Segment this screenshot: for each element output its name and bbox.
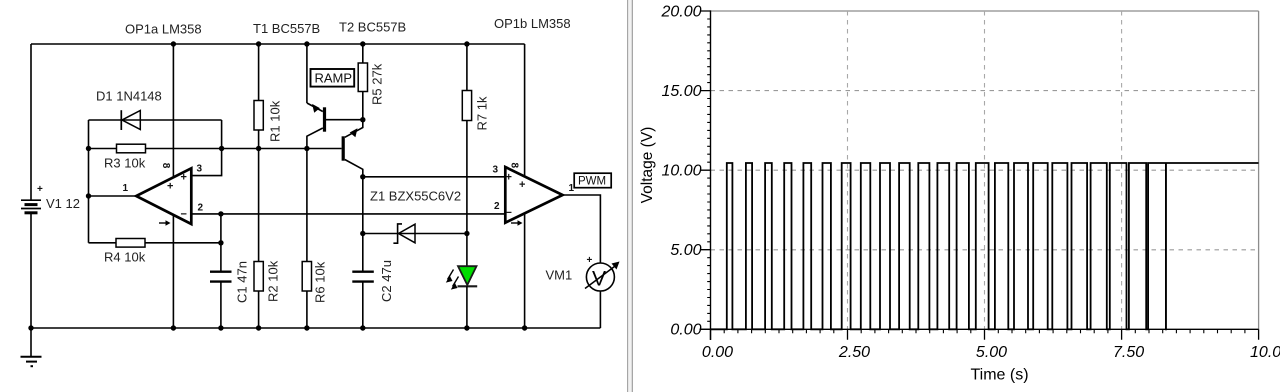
wire OP1a output xyxy=(89,195,138,197)
svg-text:R7 1k: R7 1k xyxy=(475,96,490,130)
wire top rail xyxy=(31,43,525,45)
wire D1 loop verticals xyxy=(89,120,222,149)
svg-text:+: + xyxy=(506,172,512,184)
wire C1 to rail xyxy=(220,282,222,328)
resistor R7 1k xyxy=(462,41,489,233)
svg-text:VM1: VM1 xyxy=(546,268,573,283)
svg-text:R6 10k: R6 10k xyxy=(313,261,328,303)
wire node row y148 xyxy=(89,148,307,150)
wire zener column xyxy=(362,177,364,234)
wire OP1b pin3 row xyxy=(363,176,506,178)
node row148 left xyxy=(86,146,91,151)
svg-text:OP1b LM358: OP1b LM358 xyxy=(494,16,571,31)
wire OP1b pin8 xyxy=(524,44,526,177)
svg-text:R1 10k: R1 10k xyxy=(268,100,283,142)
y axis xyxy=(710,10,712,340)
svg-text:R3 10k: R3 10k xyxy=(104,156,146,171)
y minor ticks xyxy=(707,19,710,321)
wire OP1a pin8 power xyxy=(172,44,174,178)
node R4 right xyxy=(218,240,223,245)
resistor R2 10k xyxy=(254,149,281,329)
svg-text:15.00: 15.00 xyxy=(661,83,701,100)
diode D1 1N4148 xyxy=(89,89,222,131)
wire OP1b output xyxy=(563,195,601,263)
node PWM label xyxy=(574,173,611,188)
svg-text:T1 BC557B: T1 BC557B xyxy=(253,21,320,36)
wire OP1a pin2 long to OP1b pin2 xyxy=(191,213,505,215)
resistor R6 10k xyxy=(302,149,327,329)
node row148 at x221 xyxy=(219,146,224,151)
capacitor C2 47u xyxy=(352,234,394,329)
svg-text:3: 3 xyxy=(493,165,499,176)
resistor R1 10k xyxy=(254,41,283,148)
gridline dashed horizontal 10V xyxy=(711,169,1259,171)
voltmeter VM1 xyxy=(546,255,620,291)
svg-text:PWM: PWM xyxy=(578,176,606,188)
svg-text:Z1 BZX55C6V2: Z1 BZX55C6V2 xyxy=(370,189,461,204)
svg-text:R5 27k: R5 27k xyxy=(370,63,385,105)
wire bottom rail xyxy=(31,327,600,329)
node row148 T2 base xyxy=(304,146,309,151)
wire OP1a pin3 xyxy=(191,149,221,176)
wire C1 column upper xyxy=(220,214,222,271)
LED D2 green xyxy=(446,234,477,329)
svg-text:T2 BC557B: T2 BC557B xyxy=(339,20,406,35)
svg-text:OP1a LM358: OP1a LM358 xyxy=(125,22,202,37)
svg-text:R4 10k: R4 10k xyxy=(104,250,146,265)
resistor R3 10k xyxy=(104,144,146,170)
svg-text:0.00: 0.00 xyxy=(702,344,733,361)
svg-text:V1 12: V1 12 xyxy=(46,196,80,211)
svg-text:+: + xyxy=(519,179,525,191)
svg-text:Voltage (V): Voltage (V) xyxy=(639,127,656,204)
gridline dashed horizontal 15V xyxy=(711,90,1259,92)
op-amp U OP1b xyxy=(493,163,575,226)
node OP1a output xyxy=(86,193,91,198)
node pin2 junction xyxy=(218,211,223,216)
node RAMP label xyxy=(311,69,355,87)
wire VM1 to rail xyxy=(599,291,601,328)
gridline dashed vertical 7.5s xyxy=(1121,11,1123,329)
x major ticks xyxy=(711,329,1259,340)
op-amp U OP1a xyxy=(123,163,204,226)
svg-text:1: 1 xyxy=(123,183,129,194)
svg-text:−: − xyxy=(181,209,187,221)
battery V1 12 xyxy=(21,184,80,213)
svg-text:R2 10k: R2 10k xyxy=(266,260,281,302)
svg-text:Time (s): Time (s) xyxy=(970,367,1028,384)
zener Z1 xyxy=(360,224,470,243)
svg-text:V: V xyxy=(592,268,606,291)
x axis xyxy=(700,328,1259,330)
svg-text:D1 1N4148: D1 1N4148 xyxy=(96,89,162,104)
resistor R5 27k xyxy=(358,41,384,119)
y major ticks xyxy=(700,11,710,329)
svg-text:20.00: 20.00 xyxy=(660,3,701,20)
node junction left rail bottom xyxy=(28,325,33,330)
svg-text:10.00: 10.00 xyxy=(661,163,701,180)
x minor ticks xyxy=(724,329,1245,333)
transistor Q T2 BC557B xyxy=(307,120,363,177)
node row148 at R1 xyxy=(256,146,261,151)
svg-text:2: 2 xyxy=(494,201,500,212)
gridline dashed vertical 2.5s xyxy=(847,11,849,329)
svg-text:C2 47u: C2 47u xyxy=(379,260,394,302)
capacitor C1 47n xyxy=(210,261,250,303)
ground xyxy=(21,328,42,366)
svg-text:−: − xyxy=(506,207,512,219)
waveform PWM trace xyxy=(711,163,1259,329)
svg-text:RAMP: RAMP xyxy=(315,71,353,86)
gridline dashed horizontal 5V xyxy=(711,249,1259,251)
wire OP1a pin4 xyxy=(172,215,174,329)
wire left vertical xyxy=(30,44,32,328)
wire left feedback vertical xyxy=(88,149,90,243)
plot frame top xyxy=(711,10,1259,12)
svg-text:+: + xyxy=(181,172,187,184)
svg-text:5.00: 5.00 xyxy=(670,242,701,259)
svg-text:3: 3 xyxy=(197,164,203,175)
svg-text:7.50: 7.50 xyxy=(1113,344,1144,361)
svg-text:5.00: 5.00 xyxy=(976,344,1007,361)
splitter divider xyxy=(627,0,633,392)
node T1 base / R5 / T2 emitter xyxy=(360,117,365,122)
svg-text:10.0: 10.0 xyxy=(1250,344,1280,361)
gridline dashed vertical 5s xyxy=(984,11,986,329)
resistor R4 10k xyxy=(89,239,221,265)
svg-text:+: + xyxy=(587,255,593,266)
wire OP1b pin4 xyxy=(524,214,526,329)
transistor Q T1 BC557B xyxy=(304,41,362,148)
svg-text:8: 8 xyxy=(160,163,171,169)
plot frame right xyxy=(1258,11,1260,329)
svg-text:+: + xyxy=(37,184,43,195)
svg-text:2.50: 2.50 xyxy=(838,344,870,361)
svg-text:+: + xyxy=(167,181,173,193)
svg-text:0.00: 0.00 xyxy=(670,322,701,339)
svg-text:2: 2 xyxy=(198,203,204,214)
svg-text:8: 8 xyxy=(509,163,520,169)
svg-text:C1 47n: C1 47n xyxy=(235,261,250,303)
